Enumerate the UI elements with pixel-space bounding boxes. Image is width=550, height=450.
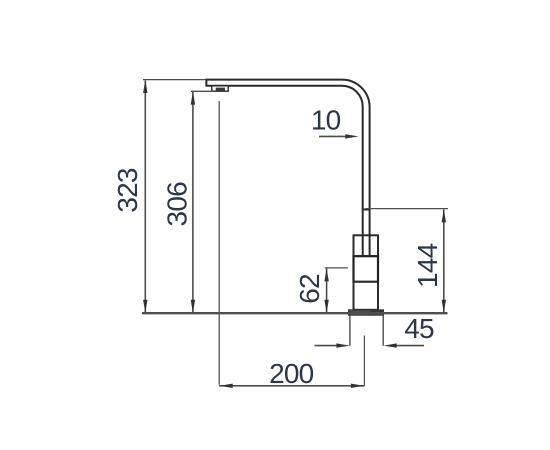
- body collar: [354, 235, 379, 256]
- tube joint line: [362, 209, 371, 211]
- leader line 10: [319, 135, 352, 137]
- extension line base right: [382, 316, 384, 346]
- body mid section: [354, 256, 379, 282]
- dimension line 144: [443, 210, 445, 313]
- svg-text:144: 144: [412, 243, 443, 288]
- dimension line 306: [192, 92, 194, 312]
- extension line 144 top: [366, 208, 449, 210]
- spout top outline: [206, 80, 370, 256]
- arrow 62 bottom: [324, 300, 328, 313]
- arrow 10: [345, 134, 358, 138]
- base plate dark end: [371, 310, 383, 314]
- countertop line: [142, 312, 448, 314]
- arrow 323 bottom: [143, 300, 147, 313]
- svg-text:306: 306: [161, 182, 192, 227]
- svg-text:62: 62: [294, 274, 325, 304]
- arrow 45 right: [384, 343, 397, 347]
- aerator centerline: [218, 101, 220, 385]
- spout bottom outline: [206, 80, 362, 256]
- extension line base left: [349, 316, 351, 346]
- arrow 200 right: [351, 384, 364, 388]
- leader line 45 right: [390, 345, 424, 347]
- extension line aerator bottom: [191, 90, 212, 92]
- arrow 306 bottom: [191, 300, 195, 313]
- dimension line 323: [144, 81, 146, 313]
- extension line spout top: [143, 79, 206, 81]
- aerator insert: [216, 88, 225, 91]
- svg-text:323: 323: [112, 168, 143, 213]
- svg-text:200: 200: [269, 358, 314, 389]
- dimension line 62: [326, 269, 328, 313]
- svg-text:10: 10: [311, 105, 341, 136]
- arrow 144 bottom: [442, 300, 446, 313]
- arrow 62 top: [324, 268, 328, 281]
- shank centerline: [363, 336, 365, 386]
- arrow 323 top: [143, 80, 147, 93]
- leader line 45 left: [315, 345, 344, 347]
- body lower section: [354, 282, 379, 310]
- extension line 62: [325, 267, 348, 269]
- dimension line 200: [219, 385, 364, 387]
- arrow 144 top: [442, 209, 446, 222]
- svg-text:45: 45: [404, 313, 434, 344]
- base plate: [349, 310, 384, 315]
- aerator body: [212, 86, 228, 91]
- arrow 45 left: [336, 343, 349, 347]
- arrow 306 top: [191, 91, 195, 104]
- arrow 200 left: [220, 384, 233, 388]
